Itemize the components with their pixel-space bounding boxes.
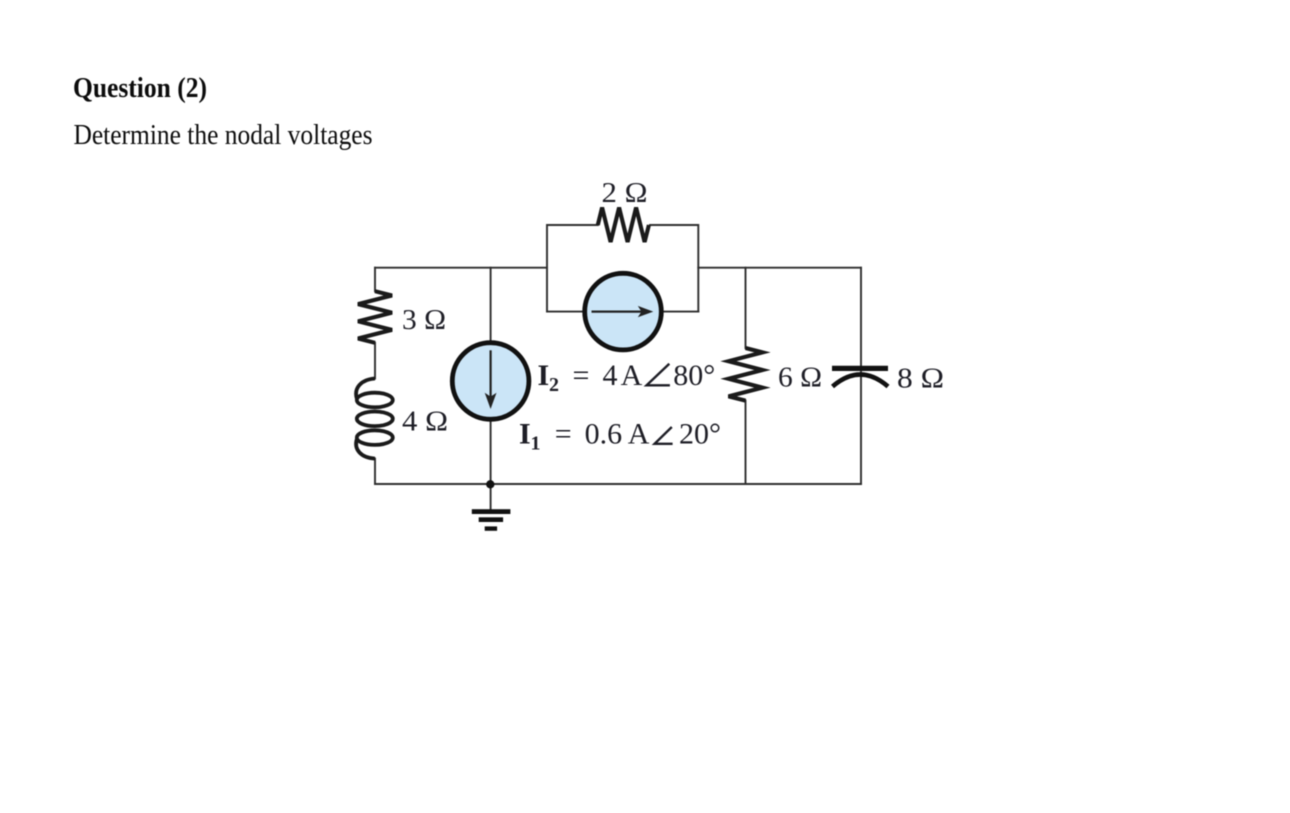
- svg-text:I: I: [519, 418, 531, 451]
- svg-text:20°: 20°: [679, 418, 721, 451]
- svg-text:3 Ω: 3 Ω: [402, 304, 446, 336]
- svg-text:4 Ω: 4 Ω: [402, 406, 448, 438]
- svg-text:80°: 80°: [673, 359, 715, 392]
- svg-text:0.6: 0.6: [585, 418, 623, 451]
- svg-text:Question (2): Question (2): [73, 73, 207, 104]
- svg-text:6 Ω: 6 Ω: [778, 362, 822, 394]
- svg-text:=: =: [573, 359, 590, 392]
- svg-text:2 Ω: 2 Ω: [602, 177, 648, 209]
- svg-text:A: A: [628, 418, 650, 451]
- svg-text:=: =: [555, 418, 572, 451]
- svg-text:8 Ω: 8 Ω: [897, 363, 944, 395]
- svg-text:1: 1: [531, 433, 541, 455]
- svg-text:Determine the nodal voltages: Determine the nodal voltages: [74, 120, 373, 151]
- svg-text:I: I: [538, 359, 550, 392]
- svg-text:A: A: [621, 359, 643, 392]
- svg-text:4: 4: [603, 359, 618, 392]
- svg-text:2: 2: [549, 374, 559, 396]
